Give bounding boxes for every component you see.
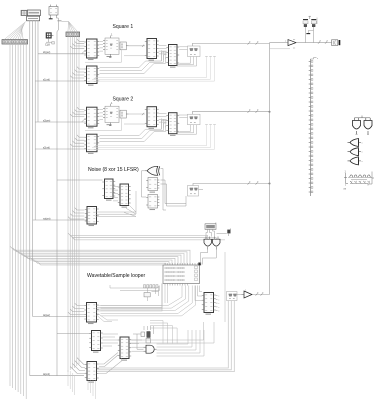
wire period feed end [82, 52, 87, 54]
wire nested route lower [157, 330, 205, 356]
chip U11B [145, 39, 159, 61]
potentiometer P1 [303, 20, 308, 27]
wire pot right stub [316, 18, 318, 25]
bus width tick [325, 40, 329, 43]
counter U1 [27, 10, 40, 16]
probe ladder [309, 58, 319, 197]
wire nested route upper [150, 321, 177, 344]
wire noise output2 [199, 189, 204, 191]
svg-text:00000000 000000: 00000000 000000 [165, 279, 186, 282]
wire counter bus verticals [30, 21, 38, 376]
bus width tick [318, 40, 322, 43]
junction dots [269, 111, 271, 185]
counter U33 [85, 207, 99, 226]
sel box [144, 286, 159, 301]
svg-text:Square 1: Square 1 [113, 24, 134, 30]
svg-text:00000000 000000: 00000000 000000 [165, 275, 186, 278]
RAM U40 [163, 263, 200, 286]
wire SP2 feed [62, 20, 69, 22]
bus width tick [261, 292, 265, 295]
svg-text:s1(per): s1(per) [43, 51, 51, 54]
wire [124, 123, 145, 125]
wire square2 output [192, 112, 269, 115]
gate LG1 [348, 139, 364, 147]
display DSP1 [205, 223, 216, 230]
counter U12D [84, 134, 99, 153]
resistor ladder DAC [344, 171, 375, 191]
svg-text:Wavetable/Sample looper: Wavetable/Sample looper [87, 273, 145, 279]
bus width tick [256, 292, 260, 295]
wire lfsr taps [161, 169, 187, 211]
chip U12B [145, 107, 159, 129]
svg-text:Noise (8 xor 15 LFSR): Noise (8 xor 15 LFSR) [88, 167, 139, 173]
probe labels [144, 285, 159, 288]
ground under FF1 [49, 17, 53, 19]
wire jog column [162, 118, 166, 129]
xor gate X1 [145, 166, 160, 175]
labels right of U41 [216, 296, 221, 313]
svg-text:wt(vol): wt(vol) [43, 373, 50, 376]
bus width tick [142, 113, 144, 115]
counter U42 [84, 303, 98, 324]
wire [129, 45, 146, 47]
chip U12C [166, 113, 179, 136]
and gate AG1 [204, 237, 212, 250]
wire left address bus verticals [10, 44, 26, 399]
splitter SP2 [66, 32, 80, 37]
wire u43 u44 [103, 334, 119, 346]
shift reg U31 [102, 179, 115, 200]
counter U12A [84, 107, 99, 128]
bus width tick [248, 181, 252, 184]
wire [124, 55, 145, 57]
wire mux select loop [177, 57, 197, 67]
wire control feeds [30, 51, 87, 376]
wire bottom stubs [68, 370, 96, 399]
register bottom stub [109, 123, 111, 126]
wire M right outs [132, 340, 144, 351]
wire pot stub [309, 16, 312, 19]
wire pot downs [306, 27, 314, 43]
counter U45 [85, 362, 99, 383]
buffer B4 [242, 290, 253, 299]
wire A to B [100, 42, 104, 52]
wire square1 output [192, 44, 269, 47]
gate LG2 [348, 148, 364, 156]
wire gate top bar [354, 116, 370, 118]
wire feedback bundle low [100, 52, 167, 74]
splitter strip SP1 [2, 40, 28, 44]
svg-text:00000000 000000: 00000000 000000 [165, 271, 186, 274]
constant blob [227, 229, 230, 234]
wire [129, 113, 146, 115]
fan into U11A [70, 39, 84, 48]
svg-text:CLK: CLK [45, 43, 50, 47]
chip U11C [166, 45, 179, 68]
bus width tick [142, 45, 144, 47]
misc small parts [133, 326, 154, 349]
wire long route [129, 252, 225, 343]
and gate AG3 [144, 345, 157, 353]
wire RAM data bundle [101, 286, 196, 316]
bus width tick [256, 181, 260, 184]
svg-text:s2(per): s2(per) [43, 119, 51, 122]
wire noise clock feed [57, 179, 103, 181]
wire mux4 band [97, 301, 235, 372]
wire display to gates [206, 229, 227, 239]
counter U11D [84, 66, 99, 85]
label right of FF1 [57, 20, 61, 22]
wire return bundle [89, 57, 216, 82]
fan into U12D [70, 135, 84, 146]
fan into U11D [70, 67, 84, 78]
svg-text:Square 2: Square 2 [113, 97, 134, 103]
gate LG3 [348, 157, 364, 165]
wire const stub [228, 233, 230, 236]
register R3B [146, 195, 159, 210]
svg-text:no(per): no(per) [43, 217, 51, 220]
bus width tick [256, 41, 260, 44]
bus width tick [248, 110, 252, 113]
ground pots [306, 33, 310, 35]
wire ff right [56, 17, 58, 30]
wire return bundle [89, 125, 216, 150]
svg-text:00000000 000000: 00000000 000000 [165, 267, 186, 270]
comparator CMP1 [120, 42, 129, 50]
wire E to MX [179, 115, 187, 118]
wire bus to buffer [270, 42, 288, 44]
wire mux select loop [177, 125, 197, 135]
wire feedback bundle low [100, 120, 167, 142]
fan into U12A [70, 107, 84, 116]
comparator CMP2 [120, 110, 129, 118]
wire buffer out [296, 42, 332, 44]
wire A to B [100, 110, 104, 120]
wire mux4 to buffer [237, 294, 242, 296]
register R2A [103, 101, 119, 125]
bus width tick [256, 110, 260, 113]
chip U41 [202, 293, 216, 315]
wire u31 u32 links [113, 187, 118, 201]
register bottom stub [109, 54, 111, 57]
clock CLK1 [21, 10, 27, 15]
speaker SPK [332, 40, 341, 46]
wire wavetable address band [97, 284, 163, 311]
mux MX3 [188, 186, 199, 197]
register R1A [103, 33, 119, 57]
wire address bus elbows to RAM [10, 246, 190, 265]
register R3A [146, 178, 159, 193]
wire xor feedback [142, 171, 147, 197]
wire comparator loop [85, 118, 122, 130]
clock CLK2 [46, 33, 53, 39]
mux MX4 [227, 292, 238, 301]
wire M to N diagonal band [99, 353, 122, 374]
chip U44 [118, 337, 131, 360]
wire diag u42 [97, 313, 119, 322]
svg-text:s2(vol): s2(vol) [43, 147, 50, 149]
wire mix bus vertical [269, 43, 271, 295]
junction blob [198, 263, 201, 266]
and gate AG2 [213, 237, 221, 250]
wire clock line [56, 32, 58, 376]
wire fan to splitter SP1 [4, 22, 26, 40]
wire noise vertical [135, 191, 137, 214]
wire below buffer [270, 48, 291, 50]
svg-text:wt(per): wt(per) [43, 314, 50, 317]
wire fan into SP2 [68, 22, 78, 33]
wire RAM to U41 [195, 286, 202, 301]
wire E to MX [179, 47, 187, 50]
wire section bus verticals [68, 37, 79, 372]
svg-text:s1(vol): s1(vol) [43, 79, 50, 81]
chip U43 [89, 331, 102, 353]
wire gate outputs to RAM [201, 250, 217, 265]
fan into U33 [68, 208, 84, 219]
counter U11A [84, 39, 99, 60]
shift reg U32 [118, 184, 131, 207]
flip-flop FF1 [49, 5, 58, 17]
wire period feed end [82, 120, 87, 122]
wire D to E [159, 46, 167, 54]
wire noise output [193, 184, 270, 186]
fan into U42 [68, 303, 84, 314]
wire ram left [110, 285, 160, 291]
counter U2 [27, 16, 40, 21]
nand gate NG2 [364, 118, 372, 134]
wire wavetable feed [57, 333, 90, 335]
wire ram bottom left verticals [165, 286, 168, 304]
buffer B1 [285, 39, 296, 50]
mux MX2 [188, 114, 201, 125]
label under CLK2 [45, 38, 54, 46]
wire D to E [159, 114, 167, 122]
bus width tick [248, 41, 252, 44]
nand gate NG1 [353, 118, 361, 134]
wire ff to clock line [57, 30, 58, 32]
wire wavetable output [252, 294, 270, 296]
wire noise bundle [96, 204, 137, 216]
wire noise to gates [68, 233, 225, 240]
mux MX1 [188, 46, 201, 57]
fan into U45 [70, 358, 85, 374]
wire jog column [162, 50, 166, 61]
wire comparator loop [85, 50, 122, 62]
potentiometer P2 [311, 20, 316, 27]
